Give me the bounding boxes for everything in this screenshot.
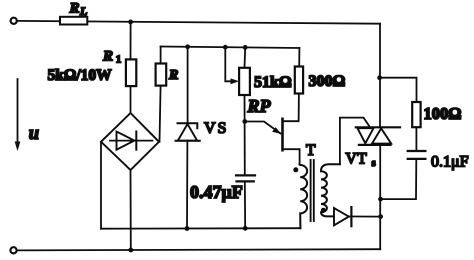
arrowhead wiper into RP (231, 78, 240, 84)
transformer secondary winding (321, 164, 340, 216)
resistor 300 ohm (295, 67, 303, 94)
svg-text:VT: VT (346, 151, 368, 168)
svg-text:R: R (102, 49, 113, 65)
wire: zener to dc- rail (186, 141, 188, 229)
bridge inner diode (110, 140, 152, 142)
potentiometer RP (239, 68, 250, 95)
wire: top rail from terminal to right corner (17, 21, 380, 24)
wire: dc- rail (101, 227, 300, 230)
wire: 100 ohm to capacitor (415, 127, 417, 151)
svg-text:R: R (69, 0, 80, 16)
wire: R1 to bridge top (130, 86, 132, 113)
svg-text:s: s (372, 157, 376, 169)
wire: secondary top lead up to triac gate (340, 118, 370, 165)
wire: R1 branch down (130, 22, 132, 60)
resistor RL (60, 17, 87, 25)
resistor 100 ohm (412, 102, 420, 127)
bridge rectifier diamond (101, 113, 159, 170)
resistor R1 (126, 59, 136, 86)
capacitor 0.1uF (408, 150, 426, 152)
node: wiper branch on second rail (223, 45, 228, 50)
node: diode junction on main vertical (378, 214, 383, 219)
svg-text:T: T (306, 142, 316, 159)
arrowhead UJT emitter (272, 127, 281, 134)
triac bottom bar (359, 144, 391, 146)
terminal top-left (11, 18, 17, 24)
svg-text:0.47μF: 0.47μF (190, 182, 243, 202)
svg-text:5kΩ/10W: 5kΩ/10W (48, 67, 113, 84)
unijunction transistor bar (281, 119, 284, 150)
node: capacitor on dc- rail (243, 226, 248, 231)
wire: 300 ohm top to second rail (298, 48, 300, 67)
wire: R up to second rail (160, 47, 162, 64)
wire: capacitor to dc- rail (244, 181, 246, 228)
transformer T primary winding (300, 165, 308, 229)
terminal bottom-left (10, 247, 16, 253)
unijunction transistor emitter wire (245, 122, 281, 134)
triac right triangle (points up) (372, 128, 391, 143)
svg-text:51kΩ: 51kΩ (254, 74, 292, 91)
junction node: top rail to R1 (128, 20, 133, 25)
wire: bridge right corner up to R (160, 86, 161, 142)
transformer primary polarity dot (293, 167, 298, 172)
wire: bottom rail (17, 249, 380, 250)
transformer secondary polarity dot (321, 208, 326, 213)
svg-text:VS: VS (204, 120, 228, 137)
node: 100 ohm branch (377, 75, 382, 80)
UJT base2 lead to 300 ohm (283, 94, 299, 122)
wire: capacitor down and left to main vertical (381, 159, 417, 199)
wire: RP top lead (244, 47, 247, 67)
wire: bridge bottom corner down to bottom rail (crosses dc- rail) (130, 170, 132, 250)
arrow u (voltage direction) (17, 79, 19, 146)
svg-text:u: u (29, 124, 39, 144)
svg-text:R: R (168, 68, 178, 83)
svg-text:L: L (79, 4, 87, 18)
wire: zener branch down (187, 47, 189, 123)
node: bridge bottom on bottom rail (128, 248, 133, 253)
wire: 100 ohm branch top (380, 78, 417, 102)
wire: bridge left corner down to dc- rail (100, 142, 102, 229)
node: snubber return on main vertical (378, 197, 383, 202)
svg-text:300Ω: 300Ω (309, 73, 346, 90)
wire: right vertical lower (triac to bottom rail) (379, 145, 381, 249)
triac VTs top bar (356, 126, 400, 128)
wire: second rail (161, 47, 300, 49)
wire: wiper branch down and right to RP (225, 47, 233, 81)
svg-text:100Ω: 100Ω (424, 104, 462, 123)
diode (334, 208, 349, 225)
node: zener on dc- rail (185, 226, 190, 231)
diode wire from secondary to main vertical (334, 215, 381, 217)
wire: RP bottom lead down to capacitor (244, 95, 246, 175)
transformer core (310, 160, 312, 221)
zener diode VS (178, 123, 198, 128)
resistor R (156, 64, 167, 86)
capacitor 0.47uF (236, 174, 255, 176)
svg-text:0.1μF: 0.1μF (431, 154, 469, 171)
UJT base1 lead to transformer primary (283, 149, 300, 164)
node: RP-emitter junction (242, 119, 247, 124)
svg-text:RP: RP (247, 96, 272, 116)
node: zener branch (185, 44, 190, 49)
triac left triangle (points down) (358, 128, 374, 143)
wire: right vertical upper (top rail to triac) (379, 24, 381, 128)
svg-text:1: 1 (116, 54, 122, 66)
node: RP top on second rail (243, 45, 248, 50)
